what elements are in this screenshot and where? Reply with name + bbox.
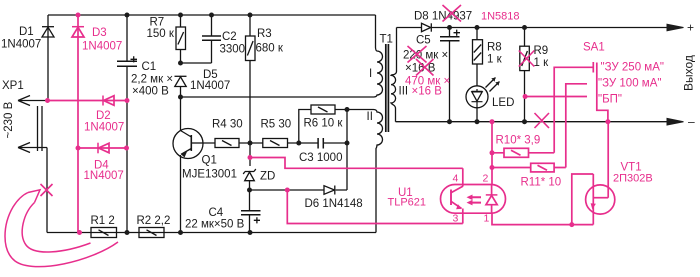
node bottom rail / C1 line (125, 230, 130, 235)
wire U1 pin 2 sense line (491, 122, 493, 185)
node D2 right / C1 minus (125, 98, 130, 103)
svg-text:R9: R9 (534, 45, 549, 57)
svg-text:MJE13001: MJE13001 (182, 169, 237, 181)
node D3 top rail (76, 13, 81, 18)
LED (466, 78, 500, 122)
svg-text:22 мк×50 В: 22 мк×50 В (185, 219, 245, 231)
svg-text:2,2 мк ×: 2,2 мк × (131, 74, 173, 86)
resistor R11 (492, 163, 566, 172)
svg-text:–: – (688, 115, 695, 129)
node D3 bottom rail (77, 230, 82, 235)
transformer T1 winding III (391, 28, 397, 122)
svg-text:1: 1 (484, 213, 490, 225)
svg-text:T1: T1 (380, 34, 393, 46)
node R9 bottom / BP contact (523, 94, 528, 99)
svg-text:1N4007: 1N4007 (1, 39, 41, 51)
X mark on R9 (519, 51, 535, 67)
svg-text:R6 10 к: R6 10 к (304, 118, 344, 130)
wire R6,C3 right node to D6 (336, 110, 347, 191)
X mark on minus rail (535, 113, 550, 128)
svg-text:"ЗУ 100 мА": "ЗУ 100 мА" (598, 78, 661, 90)
transformer T1 core (386, 44, 389, 132)
node VT1 gate at pin1 wire (569, 222, 574, 227)
diode D8 (422, 23, 668, 31)
wire U1 pin1 to VT1 (492, 213, 593, 224)
svg-text:"БП": "БП" (598, 94, 622, 106)
svg-text:R4 30: R4 30 (212, 119, 243, 131)
node R11 left (490, 165, 495, 170)
resistor R6 (299, 105, 374, 143)
node wire A at ZD (248, 155, 253, 160)
capacitor C2 (181, 15, 222, 63)
resistor R5 (250, 139, 299, 148)
svg-text:Выход: Выход (682, 55, 696, 91)
output terminal minus arrow (667, 118, 684, 125)
svg-text:II: II (367, 111, 373, 123)
wire R11 to SA1 contact 2 (566, 84, 587, 168)
wire top rail (48, 14, 376, 16)
node D2 left / XP1 (45, 98, 50, 103)
X mark on C5 16V value (416, 59, 434, 76)
transistor Q1 (173, 97, 203, 233)
svg-text:~230 В: ~230 В (3, 101, 15, 138)
svg-text:R10* 3,9: R10* 3,9 (496, 135, 541, 147)
diode D6 (250, 186, 335, 195)
wire winding I bottom feed (181, 96, 375, 98)
svg-text:+: + (687, 21, 694, 35)
svg-text:SA1: SA1 (583, 42, 605, 54)
wire R10 to SA1 contact 1 (554, 67, 593, 153)
svg-text:C4: C4 (209, 207, 224, 219)
svg-text:R2 2,2: R2 2,2 (137, 215, 171, 227)
wire secondary top rail (397, 27, 422, 29)
svg-text:D2: D2 (96, 110, 111, 122)
node R10 left (490, 150, 495, 155)
svg-text:3: 3 (453, 213, 459, 225)
node R5,R6,C3 (296, 141, 301, 146)
node D5,Q1,winding I (178, 95, 183, 100)
svg-text:1N5818: 1N5818 (481, 11, 520, 23)
node top rail / R3 (248, 13, 253, 18)
node bottom rail / C4 (248, 230, 253, 235)
svg-text:I: I (369, 68, 372, 80)
node ZD,D6,C4 (247, 188, 252, 193)
node secondary bottom rail / R9 (522, 119, 527, 124)
diode D2 (48, 96, 128, 106)
svg-text:1 к: 1 к (534, 57, 550, 69)
node top rail / C2 (209, 13, 214, 18)
diode D4 (78, 143, 127, 154)
resistor R4 (203, 139, 250, 148)
svg-text:1N4007: 1N4007 (84, 170, 124, 182)
removal arrow (curved) (5, 190, 118, 267)
node C3,D6 (345, 141, 350, 146)
svg-text:Q1: Q1 (202, 155, 217, 167)
svg-text:2П302В: 2П302В (613, 173, 653, 185)
wire top rail to winding I (375, 15, 377, 48)
capacitor C1 (117, 15, 137, 233)
node secondary bottom rail / LED (475, 119, 480, 124)
svg-text:R7: R7 (150, 17, 165, 29)
diode D1 (42, 15, 54, 101)
resistor R10 (492, 148, 554, 157)
node R7,C2,D5 (178, 61, 183, 66)
wire secondary bottom rail (396, 121, 668, 123)
node SA1 pole at minus rail (605, 119, 610, 124)
svg-text:D3: D3 (92, 27, 107, 39)
resistor R9 (520, 28, 530, 122)
svg-text:1N4007: 1N4007 (82, 41, 122, 53)
svg-text:R3: R3 (257, 28, 272, 40)
capacitor C3 (299, 138, 347, 149)
svg-text:150 к: 150 к (147, 28, 175, 40)
node D4 left / D3 (76, 146, 81, 151)
svg-text:R1 2: R1 2 (91, 215, 115, 227)
node bottom rail / Q1 emitter (178, 230, 183, 235)
transformer T1 winding II (374, 110, 383, 233)
node wire B at D6 line (285, 188, 290, 193)
capacitor C5 (440, 28, 460, 122)
svg-text:1N4007: 1N4007 (84, 122, 124, 134)
svg-text:R11* 10: R11* 10 (521, 177, 562, 189)
resistor R1 (91, 228, 117, 238)
svg-text:×16 В: ×16 В (412, 86, 443, 98)
zener diode ZD (243, 139, 256, 191)
svg-text:D6 1N4148: D6 1N4148 (305, 198, 363, 210)
svg-text:×400 В: ×400 В (132, 86, 169, 98)
connector XP1 (18, 96, 48, 153)
capacitor C4 (241, 190, 261, 233)
switch SA1 pole (593, 62, 608, 122)
node top rail / R7 (178, 13, 183, 18)
svg-text:"ЗУ 250 мА": "ЗУ 250 мА" (601, 62, 664, 74)
svg-text:R8: R8 (487, 42, 502, 54)
node top rail / C1 (125, 13, 130, 18)
node sense line at minus rail (490, 119, 495, 124)
resistor R7 (176, 15, 186, 63)
svg-text:R5 30: R5 30 (261, 119, 292, 131)
resistor R3 (246, 15, 256, 139)
svg-text:680 к: 680 к (256, 43, 284, 55)
svg-text:1N4007: 1N4007 (190, 80, 230, 92)
svg-text:C1: C1 (142, 61, 157, 73)
svg-text:C2: C2 (222, 31, 237, 43)
svg-text:D1: D1 (19, 26, 34, 38)
svg-text:ZD: ZD (260, 171, 275, 183)
diode D5 (175, 76, 187, 97)
optocoupler U1 (441, 168, 506, 223)
resistor R8 (473, 28, 483, 87)
svg-text:C5: C5 (416, 35, 431, 47)
svg-text:3300: 3300 (220, 44, 246, 56)
wire B: C4 plus node to U1 pin 3 (287, 190, 463, 224)
resistor R2 (139, 228, 164, 238)
X cut mark on XP1 lower wire (41, 184, 53, 196)
svg-text:TLP621: TLP621 (388, 197, 427, 209)
node secondary top rail / C5 (447, 25, 452, 30)
node R4,R5,R3 (248, 141, 253, 146)
diode D3 (72, 15, 84, 233)
node secondary top rail / R9 (522, 25, 527, 30)
svg-text:C3 1000: C3 1000 (299, 152, 342, 164)
node R6,winding II (345, 107, 350, 112)
svg-text:XP1: XP1 (2, 80, 24, 92)
svg-text:4: 4 (453, 173, 459, 185)
node secondary bottom rail / C5 (447, 119, 452, 124)
wire XP1 lower arm down (46, 148, 48, 233)
wire bottom rail (47, 232, 376, 234)
node secondary top rail / R8 (475, 25, 480, 30)
svg-text:LED: LED (492, 97, 514, 109)
svg-text:1 к: 1 к (487, 54, 503, 66)
transformer T1 winding I (374, 48, 383, 98)
node D4 right / C1 line (124, 146, 129, 151)
wire R9 node to SA1 contact 3 (525, 96, 587, 98)
X mark on C5 220uF value (408, 46, 427, 63)
output terminal plus arrow (667, 24, 684, 31)
wire A: ZD top node to U1 pin 4 (250, 158, 463, 169)
X mark on D8 label (443, 5, 462, 22)
svg-text:2: 2 (483, 173, 489, 185)
transistor VT1 (572, 122, 615, 225)
